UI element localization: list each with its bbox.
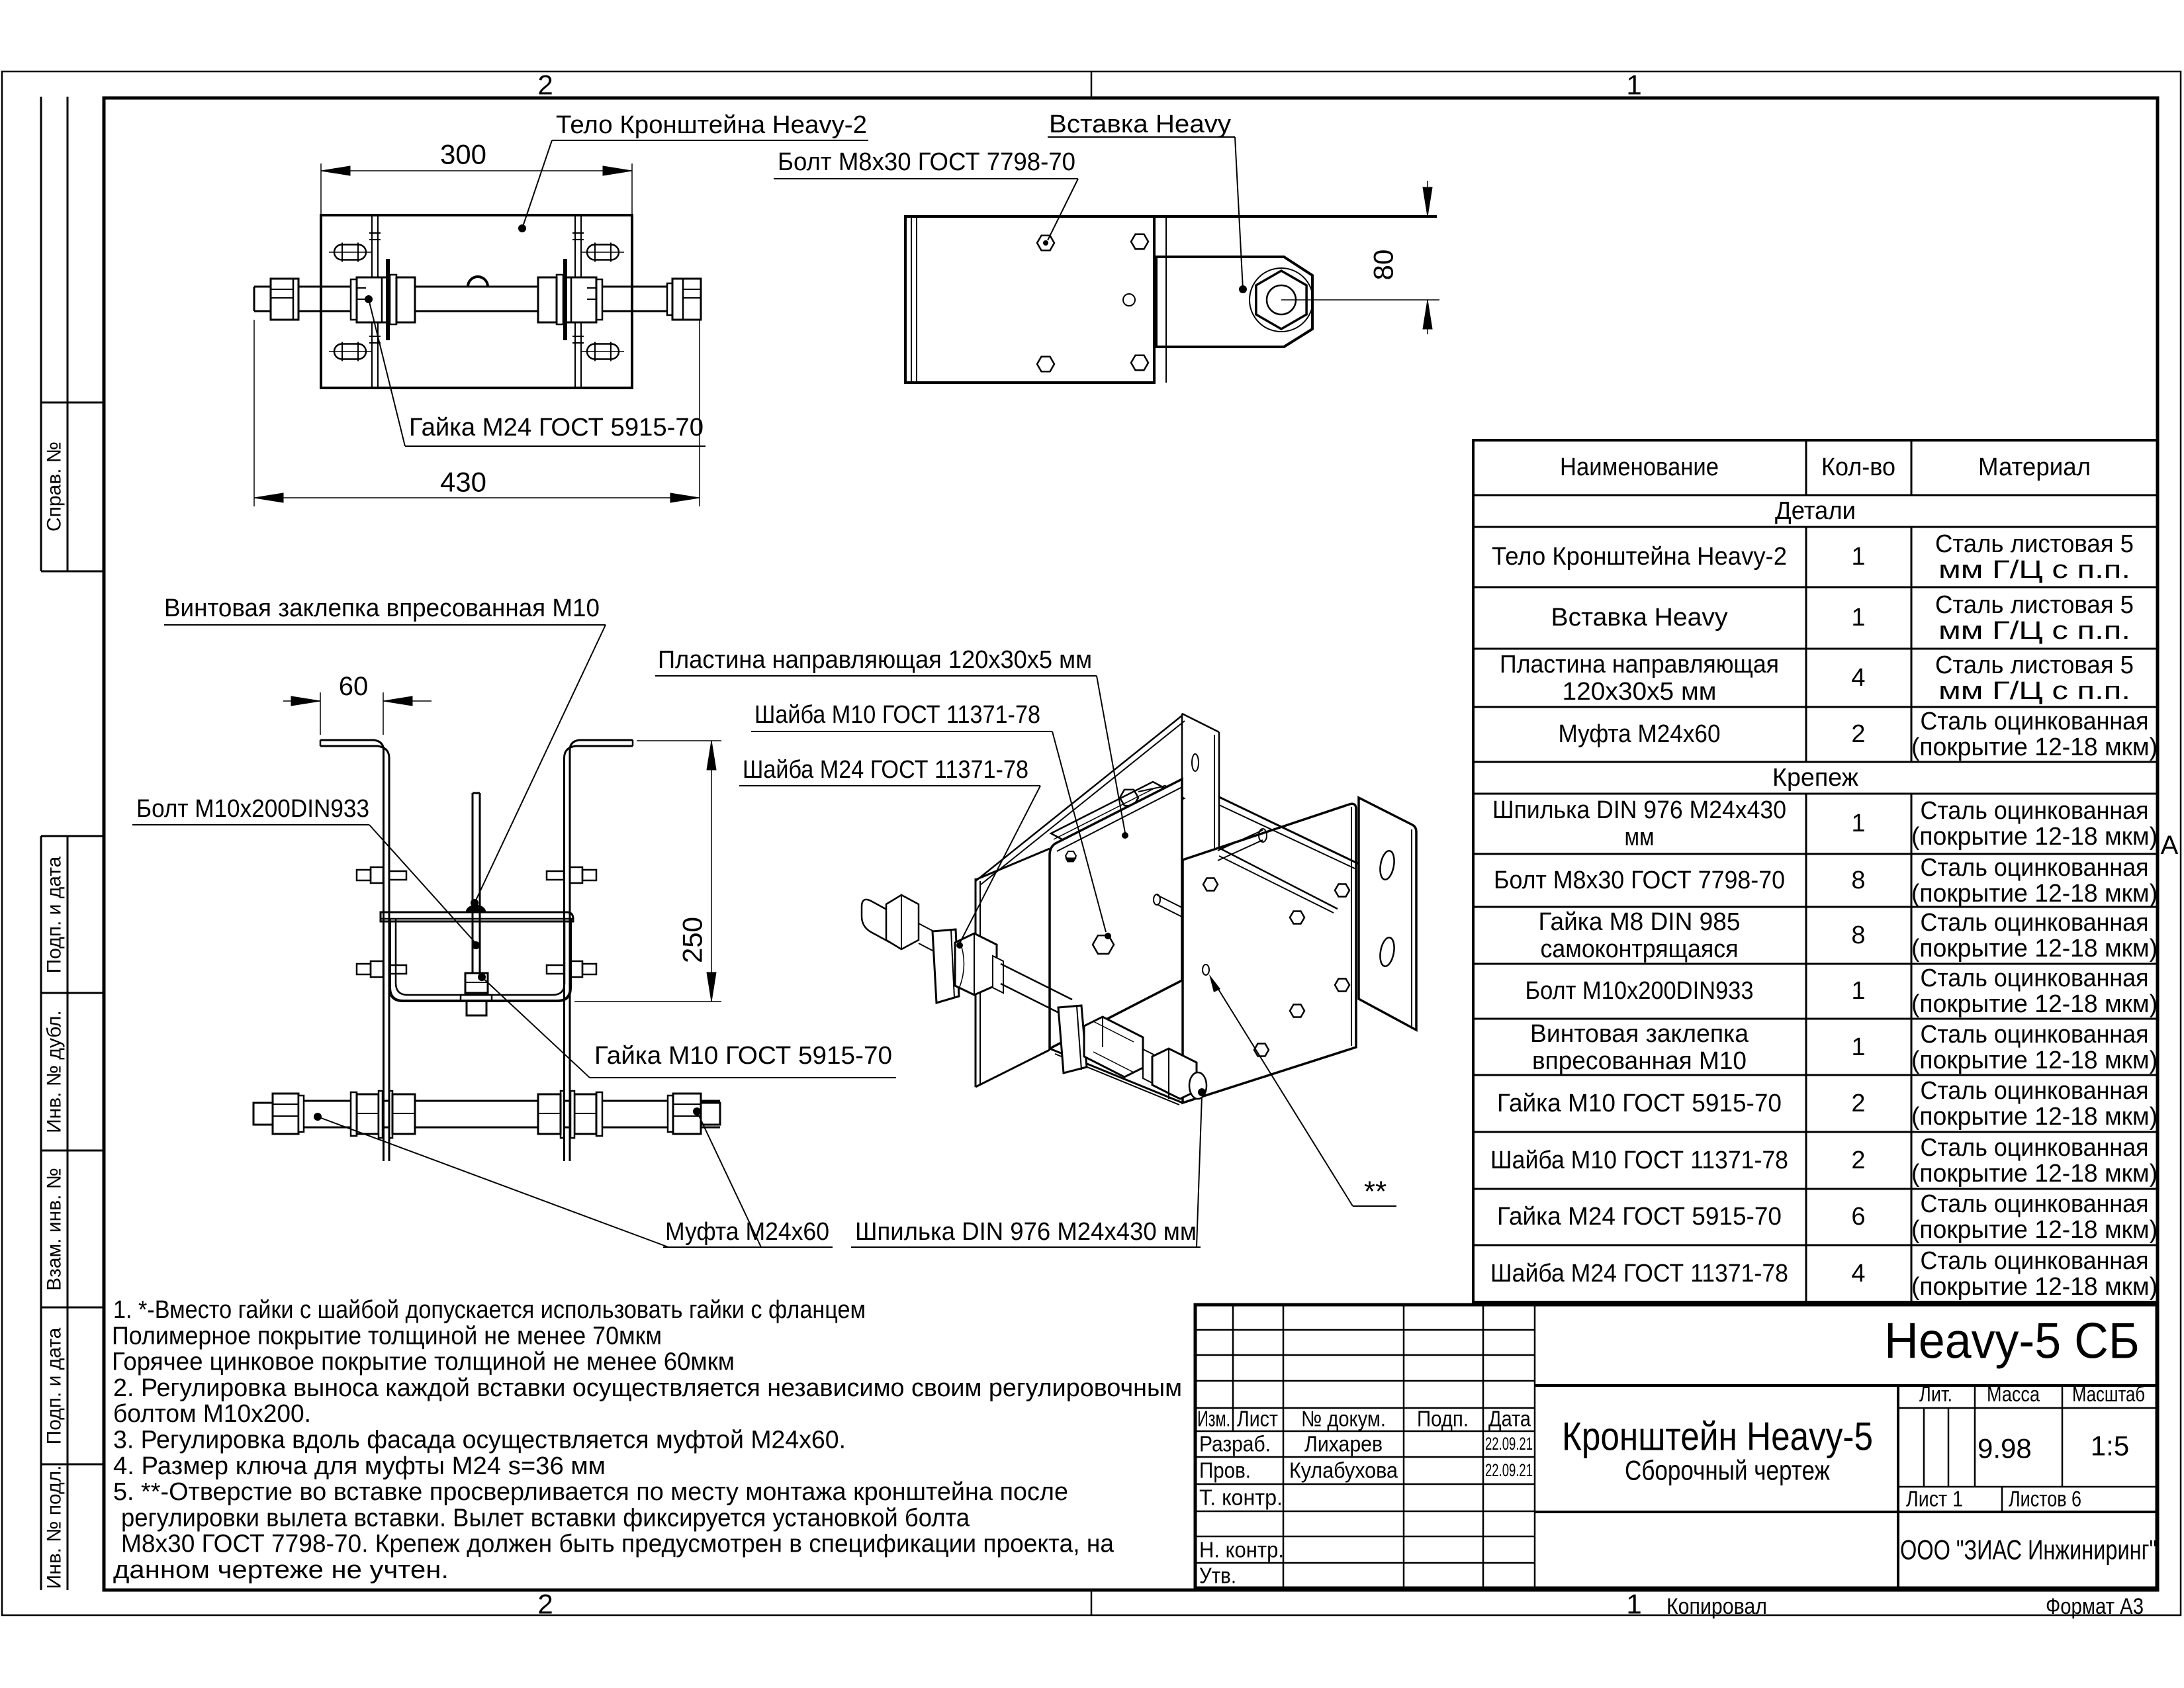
svg-text:Сталь листовая 5: Сталь листовая 5 xyxy=(1935,591,2134,619)
svg-text:Лит.: Лит. xyxy=(1919,1382,1952,1406)
iso washer plate 2 xyxy=(1058,1006,1087,1073)
iso stud rod xyxy=(1001,964,1072,1000)
svg-text:Справ. №: Справ. № xyxy=(44,442,66,532)
bolt M8 stubs left upper xyxy=(371,867,383,883)
dimension 80 xyxy=(1427,181,1428,216)
bottom stud front view xyxy=(273,1100,720,1102)
svg-text:Крепеж: Крепеж xyxy=(1772,764,1859,792)
left nut M24 xyxy=(357,277,392,322)
iso wall plate face xyxy=(1183,804,1356,1103)
svg-text:(покрытие 12-18 мкм): (покрытие 12-18 мкм) xyxy=(1911,1216,2158,1244)
svg-text:Шпилька DIN 976 М24х430 мм: Шпилька DIN 976 М24х430 мм xyxy=(855,1218,1197,1246)
svg-text:самоконтрящаяся: самоконтрящаяся xyxy=(1541,935,1739,963)
svg-text:1. *-Вместо гайки с шайбой до: 1. *-Вместо гайки с шайбой допускается и… xyxy=(113,1296,866,1324)
stud rod top view xyxy=(254,286,701,288)
iso washer plate 1 xyxy=(933,929,959,1003)
iso hex bolt M8 on web xyxy=(1093,935,1114,954)
washer M10 xyxy=(461,995,492,1001)
right end nut xyxy=(667,283,672,315)
bolt head M8 bottom-left xyxy=(1037,357,1054,372)
left washer xyxy=(351,279,357,320)
iso channel web face xyxy=(1050,779,1182,1049)
iso flange slot upper xyxy=(1378,850,1396,881)
svg-text:данном чертеже не учтен.: данном чертеже не учтен. xyxy=(113,1556,449,1584)
svg-text:5. **-Отверстие во вставке про: 5. **-Отверстие во вставке просверливает… xyxy=(113,1478,1068,1506)
svg-text:Детали: Детали xyxy=(1775,497,1856,525)
rivet pressed M10 xyxy=(467,906,485,912)
iso stud end cap left xyxy=(862,900,893,944)
svg-text:4: 4 xyxy=(1851,664,1865,692)
left margin lower blocks xyxy=(40,836,42,1590)
right washer M24 xyxy=(557,275,563,324)
svg-text:(покрытие 12-18 мкм): (покрытие 12-18 мкм) xyxy=(1911,1103,2158,1131)
svg-text:Сталь листовая 5: Сталь листовая 5 xyxy=(1935,651,2134,679)
svg-text:Болт М8х30 ГОСТ 7798-70: Болт М8х30 ГОСТ 7798-70 xyxy=(1494,867,1785,894)
svg-text:Утв.: Утв. xyxy=(1199,1564,1236,1588)
svg-text:Взам. инв. №: Взам. инв. № xyxy=(44,1168,66,1291)
svg-text:2: 2 xyxy=(537,70,553,101)
coupler M24x60 left xyxy=(273,1094,298,1134)
svg-text:мм Г/Ц с п.п.: мм Г/Ц с п.п. xyxy=(1938,617,2130,645)
svg-text:1: 1 xyxy=(1851,977,1865,1005)
svg-text:Шайба М10 ГОСТ 11371-78: Шайба М10 ГОСТ 11371-78 xyxy=(1490,1147,1788,1174)
coupler hex end view xyxy=(1250,268,1313,332)
svg-text:22.09.21: 22.09.21 xyxy=(1485,1460,1533,1480)
svg-text:мм: мм xyxy=(1625,823,1655,851)
dimension 300 xyxy=(320,164,322,215)
svg-text:1: 1 xyxy=(1851,604,1865,632)
svg-text:Инв. № дубл.: Инв. № дубл. xyxy=(44,1010,66,1133)
iso stud end face xyxy=(1189,1072,1206,1099)
svg-text:Шпилька DIN 976 М24х430: Шпилька DIN 976 М24х430 xyxy=(1492,796,1786,824)
svg-text:1: 1 xyxy=(1626,70,1641,101)
side view insert vertical edges xyxy=(1154,216,1156,383)
guide plate edge lines right xyxy=(574,215,576,388)
right insert wall section xyxy=(563,259,567,340)
svg-text:Н. контр.: Н. контр. xyxy=(1199,1538,1284,1562)
svg-text:Лист 1: Лист 1 xyxy=(1906,1487,1963,1511)
svg-text:Масштаб: Масштаб xyxy=(2072,1382,2145,1406)
svg-text:2: 2 xyxy=(1851,1147,1865,1174)
svg-text:Листов 6: Листов 6 xyxy=(2009,1487,2081,1511)
svg-text:(покрытие 12-18 мкм): (покрытие 12-18 мкм) xyxy=(1911,1160,2158,1188)
svg-text:Гайка М24 ГОСТ 5915-70: Гайка М24 ГОСТ 5915-70 xyxy=(1497,1203,1782,1231)
svg-text:Сталь оцинкованная: Сталь оцинкованная xyxy=(1921,854,2149,882)
svg-text:впресованная М10: впресованная М10 xyxy=(1532,1047,1747,1075)
svg-text:Подп.: Подп. xyxy=(1417,1407,1469,1431)
bolt M8 stubs right upper xyxy=(570,867,582,883)
svg-text:Муфта М24х60: Муфта М24х60 xyxy=(1559,720,1721,748)
svg-text:Кронштейн Heavy-5: Кронштейн Heavy-5 xyxy=(1562,1415,1873,1459)
svg-text:Шайба М24 ГОСТ 11371-78: Шайба М24 ГОСТ 11371-78 xyxy=(1490,1260,1788,1288)
iso small hole for bolt xyxy=(1203,964,1209,975)
svg-text:Материал: Материал xyxy=(1978,453,2091,481)
svg-text:Пров.: Пров. xyxy=(1199,1458,1251,1483)
iso tall right wall xyxy=(1181,714,1183,862)
svg-text:80: 80 xyxy=(1368,250,1399,281)
iso top guide plate xyxy=(1051,782,1184,850)
svg-text:Сборочный чертеж: Сборочный чертеж xyxy=(1625,1455,1830,1486)
svg-text:Муфта М24х60: Муфта М24х60 xyxy=(665,1218,829,1246)
bolt M10 rod front view xyxy=(472,793,474,973)
iso bolt M10 end stub xyxy=(1157,895,1183,908)
svg-text:300: 300 xyxy=(440,139,486,170)
iso collar washer xyxy=(1143,1049,1154,1084)
svg-text:Сталь оцинкованная: Сталь оцинкованная xyxy=(1921,1190,2149,1218)
left inner nut xyxy=(396,277,415,322)
left washer M24 xyxy=(390,275,396,324)
iso stud rod segment 1 xyxy=(919,923,934,931)
guide plate front view xyxy=(381,912,573,921)
svg-text:6: 6 xyxy=(1851,1203,1865,1231)
svg-text:А: А xyxy=(2161,831,2179,860)
svg-text:1: 1 xyxy=(1851,810,1865,837)
iso stud end nut xyxy=(1152,1049,1197,1099)
svg-text:Разраб.: Разраб. xyxy=(1199,1432,1271,1456)
svg-text:Т. контр.: Т. контр. xyxy=(1199,1485,1283,1510)
svg-text:Сталь оцинкованная: Сталь оцинкованная xyxy=(1921,1021,2149,1049)
svg-text:Лихарев: Лихарев xyxy=(1304,1432,1383,1456)
svg-text:Изм.: Изм. xyxy=(1197,1407,1230,1431)
bottom stud left end stub xyxy=(253,1103,273,1125)
iso wall plate flange xyxy=(1359,798,1416,1030)
right coupler and stub xyxy=(668,1096,673,1132)
svg-text:(покрытие 12-18 мкм): (покрытие 12-18 мкм) xyxy=(1911,880,2158,908)
side view top edge extension xyxy=(1154,215,1437,218)
iso arm lines to wall plate xyxy=(1219,797,1359,864)
svg-text:(покрытие 12-18 мкм): (покрытие 12-18 мкм) xyxy=(1911,1047,2158,1074)
nut M10 lower xyxy=(465,973,488,993)
slot hole bottom-right xyxy=(587,344,619,359)
svg-text:Дата: Дата xyxy=(1488,1407,1531,1431)
iso stud nut left xyxy=(886,895,919,949)
top view bracket plate xyxy=(321,215,632,388)
svg-text:1:5: 1:5 xyxy=(2091,1430,2129,1462)
center line to dimension xyxy=(1281,299,1439,301)
right inner nut xyxy=(538,277,557,322)
slot hole bottom-left xyxy=(334,344,366,359)
svg-text:регулировки вылета вставки. Вы: регулировки вылета вставки. Вылет вставк… xyxy=(121,1504,970,1532)
svg-text:Шайба М10 ГОСТ 11371-78: Шайба М10 ГОСТ 11371-78 xyxy=(754,701,1040,729)
svg-text:Наименование: Наименование xyxy=(1560,453,1719,481)
dimension 250 xyxy=(637,740,721,741)
left end nut xyxy=(271,279,298,320)
svg-text:120х30х5 мм: 120х30х5 мм xyxy=(1563,678,1717,706)
bolt head M8 top-left xyxy=(1037,236,1054,251)
front view body profile left xyxy=(320,740,389,1161)
svg-text:**: ** xyxy=(1364,1176,1387,1208)
svg-text:1: 1 xyxy=(1851,1033,1865,1061)
svg-text:250: 250 xyxy=(677,917,708,963)
iso rear arm edge xyxy=(976,716,1182,881)
svg-text:Тело Кронштейна Heavy-2: Тело Кронштейна Heavy-2 xyxy=(556,111,867,139)
svg-text:М8х30 ГОСТ 7798-70. Крепеж дол: М8х30 ГОСТ 7798-70. Крепеж должен быть п… xyxy=(121,1530,1115,1558)
svg-text:Сталь оцинкованная: Сталь оцинкованная xyxy=(1921,1247,2149,1275)
left margin upper block xyxy=(40,97,42,571)
svg-text:Сталь оцинкованная: Сталь оцинкованная xyxy=(1921,1077,2149,1105)
nut M10 below xyxy=(467,1001,486,1015)
svg-text:3. Регулировка вдоль фасада ос: 3. Регулировка вдоль фасада осуществляет… xyxy=(113,1427,846,1454)
svg-text:Heavy-5 СБ: Heavy-5 СБ xyxy=(1884,1313,2140,1370)
svg-text:мм Г/Ц с п.п.: мм Г/Ц с п.п. xyxy=(1938,677,2130,705)
svg-text:Полимерное покрытие толщиной н: Полимерное покрытие толщиной не менее 70… xyxy=(112,1322,662,1350)
iso bottom arm edge xyxy=(1050,1049,1183,1103)
svg-text:(покрытие 12-18 мкм): (покрытие 12-18 мкм) xyxy=(1911,823,2158,851)
svg-text:2: 2 xyxy=(1851,720,1865,748)
svg-text:болтом М10х200.: болтом М10х200. xyxy=(113,1400,311,1428)
svg-text:4: 4 xyxy=(1851,1260,1865,1288)
svg-text:9.98: 9.98 xyxy=(1978,1433,2032,1464)
svg-text:Винтовая заклепка впресованная: Винтовая заклепка впресованная М10 xyxy=(164,594,600,622)
iso rear stud stub xyxy=(1218,830,1263,851)
insert plate side view xyxy=(1156,257,1312,347)
svg-text:Гайка М10 ГОСТ 5915-70: Гайка М10 ГОСТ 5915-70 xyxy=(1497,1090,1782,1117)
svg-text:Болт М10х200DIN933: Болт М10х200DIN933 xyxy=(1525,977,1754,1005)
svg-text:Пластина направляющая 120х30х5: Пластина направляющая 120х30х5 мм xyxy=(658,646,1092,674)
bottom right cluster xyxy=(596,1092,602,1136)
svg-text:ООО "ЗИАС Инжиниринг": ООО "ЗИАС Инжиниринг" xyxy=(1900,1534,2157,1566)
svg-text:Винтовая заклепка: Винтовая заклепка xyxy=(1530,1020,1749,1048)
right nut M24 xyxy=(561,277,596,322)
svg-text:2: 2 xyxy=(1851,1090,1865,1117)
svg-text:(покрытие 12-18 мкм): (покрытие 12-18 мкм) xyxy=(1911,733,2158,761)
svg-text:(покрытие 12-18 мкм): (покрытие 12-18 мкм) xyxy=(1911,935,2158,962)
svg-text:Болт М10х200DIN933: Болт М10х200DIN933 xyxy=(136,795,369,823)
svg-text:Сталь оцинкованная: Сталь оцинкованная xyxy=(1921,797,2149,825)
svg-text:Копировал: Копировал xyxy=(1666,1594,1767,1619)
svg-text:Сталь оцинкованная: Сталь оцинкованная xyxy=(1921,964,2149,992)
rivet arc top view xyxy=(468,277,488,287)
slot hole top-left xyxy=(334,245,366,260)
iso coupler M24x60 xyxy=(1084,1017,1143,1077)
svg-text:Масса: Масса xyxy=(1987,1382,2040,1406)
front view web lower part xyxy=(383,1072,385,1161)
slot hole top-right xyxy=(587,245,619,260)
svg-text:Сталь оцинкованная: Сталь оцинкованная xyxy=(1921,1134,2149,1162)
svg-text:мм Г/Ц с п.п.: мм Г/Ц с п.п. xyxy=(1938,556,2130,584)
svg-text:Пластина направляющая: Пластина направляющая xyxy=(1500,651,1779,679)
svg-text:Подп. и дата: Подп. и дата xyxy=(44,856,66,973)
svg-text:Сталь листовая 5: Сталь листовая 5 xyxy=(1935,530,2134,558)
svg-text:Сталь оцинкованная: Сталь оцинкованная xyxy=(1921,909,2149,937)
svg-text:2. Регулировка выноса каждой в: 2. Регулировка выноса каждой вставки осу… xyxy=(113,1374,1182,1402)
svg-text:22.09.21: 22.09.21 xyxy=(1485,1434,1533,1454)
svg-text:4. Размер ключа для муфты М24: 4. Размер ключа для муфты М24 s=36 мм xyxy=(113,1452,606,1480)
iso flange slot lower xyxy=(1378,937,1396,968)
svg-text:8: 8 xyxy=(1851,921,1865,949)
bolt M8 stubs left lower xyxy=(371,961,383,977)
guide plate edge lines left xyxy=(371,215,373,388)
svg-text:№ докум.: № докум. xyxy=(1301,1407,1386,1431)
svg-text:2: 2 xyxy=(537,1589,553,1620)
small hole xyxy=(1123,294,1135,306)
insert channel front view xyxy=(390,919,570,1001)
svg-text:Гайка М10 ГОСТ 5915-70: Гайка М10 ГОСТ 5915-70 xyxy=(594,1042,892,1070)
svg-text:Инв. № подл.: Инв. № подл. xyxy=(44,1466,66,1589)
svg-text:Гайка М24 ГОСТ 5915-70: Гайка М24 ГОСТ 5915-70 xyxy=(409,414,704,442)
left insert wall section xyxy=(386,259,390,340)
svg-text:Кулабухова: Кулабухова xyxy=(1289,1458,1398,1483)
title block revision columns xyxy=(1232,1305,1234,1431)
svg-text:Болт М8х30 ГОСТ 7798-70: Болт М8х30 ГОСТ 7798-70 xyxy=(778,148,1075,176)
svg-text:Кол-во: Кол-во xyxy=(1821,453,1895,481)
front view body profile right xyxy=(565,740,633,1161)
svg-text:Тело Кронштейна Heavy-2: Тело Кронштейна Heavy-2 xyxy=(1492,543,1787,571)
iso collar after nut xyxy=(993,956,1003,993)
zone divider top xyxy=(1091,71,1093,98)
svg-text:Гайка М8 DIN 985: Гайка М8 DIN 985 xyxy=(1539,908,1741,936)
dimension 430 xyxy=(253,320,255,506)
svg-text:1: 1 xyxy=(1851,543,1865,571)
svg-text:(покрытие 12-18 мкм): (покрытие 12-18 мкм) xyxy=(1911,1273,2158,1301)
side view body plate xyxy=(905,216,1154,383)
iso bolt M8 with stub on guide plate xyxy=(1120,790,1138,806)
svg-text:1: 1 xyxy=(1626,1589,1641,1620)
parts table xyxy=(1473,440,2158,1302)
title block outline xyxy=(1195,1305,2157,1588)
svg-text:430: 430 xyxy=(440,467,486,498)
svg-text:Вставка Heavy: Вставка Heavy xyxy=(1049,111,1231,138)
svg-text:Подп. и дата: Подп. и дата xyxy=(44,1327,66,1444)
svg-text:Шайба М24 ГОСТ 11371-78: Шайба М24 ГОСТ 11371-78 xyxy=(743,756,1028,784)
zone divider bottom xyxy=(1091,1590,1093,1615)
iso nut M24 on stud xyxy=(955,933,997,995)
svg-text:(покрытие 12-18 мкм): (покрытие 12-18 мкм) xyxy=(1911,990,2158,1018)
svg-text:60: 60 xyxy=(339,672,369,701)
bottom left cluster xyxy=(351,1092,357,1136)
iso channel left wall edge xyxy=(975,878,977,1087)
svg-text:8: 8 xyxy=(1851,867,1865,894)
svg-text:Сталь оцинкованная: Сталь оцинкованная xyxy=(1921,708,2149,735)
bolt M8 stubs right lower xyxy=(570,961,582,977)
dimension 60 xyxy=(320,692,321,735)
svg-text:Горячее цинковое покрытие толщ: Горячее цинковое покрытие толщиной не ме… xyxy=(112,1348,735,1376)
bolt head M8 bottom-right xyxy=(1131,355,1148,371)
bolt head M8 top-right xyxy=(1131,234,1148,250)
svg-text:Формат А3: Формат А3 xyxy=(2046,1594,2144,1619)
svg-text:Вставка Heavy: Вставка Heavy xyxy=(1551,604,1728,632)
iso small hex at channel top xyxy=(1066,851,1076,861)
svg-text:Лист: Лист xyxy=(1237,1407,1278,1431)
iso hex bolts on wall plate xyxy=(1203,878,1218,891)
right washer xyxy=(596,279,602,320)
